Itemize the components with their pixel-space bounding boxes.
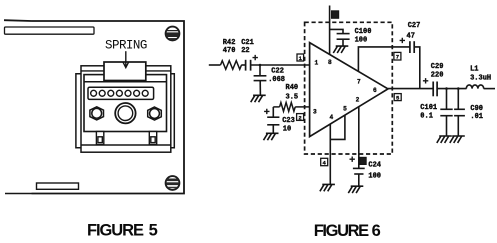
terminal box 6 (dark): [332, 11, 339, 18]
wire C29 to L1: [437, 88, 466, 90]
svg-text:7: 7: [396, 54, 399, 61]
svg-text:SPRING: SPRING: [105, 39, 148, 53]
IC dashed box: [305, 22, 393, 154]
wire pin7 bootstrap: [358, 47, 409, 71]
wire pin2 to C24: [358, 106, 360, 168]
terminal box 2: [297, 114, 304, 122]
connector strip: [88, 87, 154, 99]
svg-text:FIGURE: FIGURE: [87, 222, 144, 240]
svg-text:4: 4: [329, 114, 333, 121]
svg-text:100: 100: [355, 36, 368, 44]
svg-text:0.1: 0.1: [420, 113, 433, 121]
ground under C101: [437, 136, 452, 143]
resistor R40: [273, 103, 309, 112]
wire pin4 to ground: [329, 139, 331, 184]
svg-text:C29: C29: [431, 63, 444, 71]
capacitor C27: [410, 41, 414, 53]
svg-text:FIGURE: FIGURE: [314, 222, 370, 240]
capacitor C100: [330, 29, 350, 46]
capacitor C23: [267, 107, 279, 133]
op-amp U1 triangle: [310, 43, 388, 137]
inductor L1: [466, 85, 483, 89]
SPRING arrow: [123, 51, 129, 67]
polarity + of C24: [350, 157, 355, 162]
bottom-left slot: [37, 183, 79, 189]
svg-text:3: 3: [313, 108, 317, 115]
svg-text:6: 6: [372, 222, 381, 240]
svg-text:22: 22: [241, 47, 249, 55]
svg-text:220: 220: [431, 72, 444, 80]
ground under C100: [333, 46, 348, 53]
ground under C90: [450, 136, 465, 143]
svg-text:C23: C23: [282, 117, 295, 125]
top edge extension line: [4, 19, 32, 22]
svg-text:C24: C24: [368, 162, 381, 170]
svg-text:47: 47: [407, 32, 415, 40]
polarity + of C29: [423, 78, 428, 83]
svg-text:100: 100: [368, 173, 381, 181]
ground under C22: [251, 95, 266, 102]
svg-text:3.5: 3.5: [286, 94, 299, 102]
svg-text:7: 7: [357, 78, 361, 85]
spring block: [104, 62, 146, 81]
svg-text:5: 5: [149, 222, 158, 240]
svg-text:10: 10: [283, 125, 291, 133]
panel outline: [32, 21, 185, 194]
center bushing double circle: [115, 103, 135, 123]
svg-text:R42: R42: [223, 39, 236, 47]
supply wire from terminal 6: [329, 6, 331, 55]
bottom edge extension line: [5, 193, 32, 195]
terminal box 8 (dark): [360, 157, 366, 164]
connector holes: [91, 90, 148, 96]
node C90 tap: [457, 87, 460, 90]
svg-text:C27: C27: [408, 22, 421, 30]
svg-text:C21: C21: [241, 39, 254, 47]
wire input left: [209, 64, 221, 66]
right leg tab: [149, 132, 156, 145]
capacitor C90: [454, 89, 465, 136]
wire R42 to C21: [241, 64, 245, 66]
polarity + of C21: [253, 55, 258, 60]
left leg tab: [96, 132, 103, 145]
feedback notch under triangle: [330, 115, 345, 139]
svg-text:C101: C101: [420, 104, 437, 112]
svg-text:5: 5: [343, 106, 347, 113]
capacitor C101: [440, 89, 452, 136]
svg-text:C90: C90: [470, 105, 483, 113]
svg-text:3.3uH: 3.3uH: [470, 75, 491, 83]
svg-text:.01: .01: [470, 113, 483, 121]
svg-text:470: 470: [223, 47, 236, 55]
polarity + of C23: [264, 109, 269, 114]
polarity + of C27: [400, 38, 405, 43]
svg-text:C22: C22: [271, 67, 284, 75]
svg-text:1: 1: [314, 59, 318, 66]
middle mounting frame: [81, 66, 171, 152]
node C22 tap: [259, 64, 262, 67]
ground under C24: [348, 186, 363, 193]
outer bracket sides: [76, 74, 174, 148]
capacitor C22: [254, 65, 267, 95]
screw top-right: [165, 27, 180, 41]
svg-text:6: 6: [373, 87, 377, 94]
capacitor C29: [433, 82, 437, 97]
capacitor C24: [353, 168, 365, 186]
terminal box 7: [394, 52, 401, 60]
svg-text:8: 8: [328, 59, 332, 66]
wire C21 to pin1: [251, 64, 310, 66]
hex bolt right: [148, 107, 162, 120]
main body block: [84, 75, 167, 132]
wire C27 to output node: [414, 47, 420, 89]
resistor R42: [221, 61, 242, 70]
terminal box 5: [394, 94, 401, 102]
svg-text:2: 2: [356, 96, 360, 103]
terminal box 4: [321, 158, 328, 166]
capacitor C21: [246, 60, 251, 71]
wire L1 to edge: [484, 88, 495, 90]
node C101 tap: [445, 87, 448, 90]
terminal box 1: [297, 54, 304, 62]
ground pin4 wire: [320, 184, 335, 191]
svg-text:.068: .068: [268, 76, 285, 84]
screw bottom-right: [165, 176, 180, 190]
hex bolt left: [90, 107, 104, 120]
top slide bar: [5, 27, 95, 34]
svg-text:L1: L1: [470, 65, 478, 73]
svg-text:C100: C100: [355, 28, 372, 36]
output wire from pin 8 apex: [388, 88, 433, 90]
ground under C23: [264, 133, 279, 140]
svg-text:R40: R40: [286, 84, 299, 92]
